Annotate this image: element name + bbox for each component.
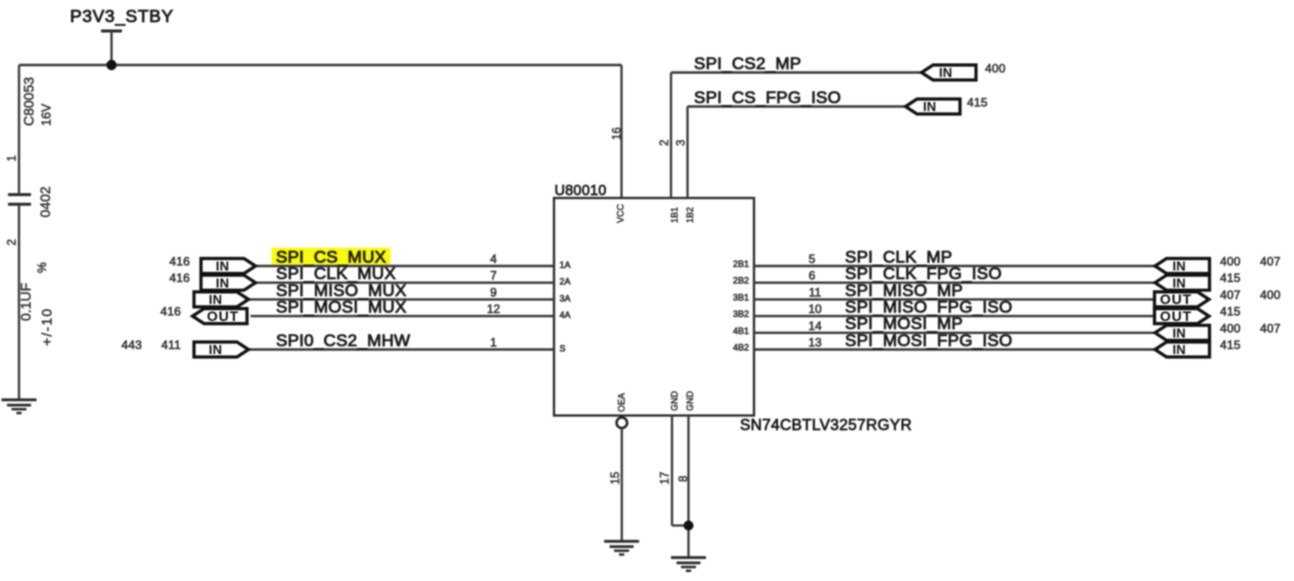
svg-text:8: 8 — [678, 476, 690, 482]
svg-text:443: 443 — [121, 338, 142, 352]
svg-text:C80053: C80053 — [21, 77, 37, 126]
svg-text:3B2: 3B2 — [733, 309, 749, 319]
svg-text:416: 416 — [169, 255, 190, 269]
svg-text:SPI_CS_FPG_ISO: SPI_CS_FPG_ISO — [694, 88, 841, 107]
svg-text:10: 10 — [808, 302, 822, 316]
svg-text:VCC: VCC — [616, 203, 626, 223]
svg-text:IN: IN — [1173, 275, 1186, 290]
svg-text:1: 1 — [7, 155, 19, 161]
svg-text:0402: 0402 — [37, 186, 53, 217]
svg-text:407: 407 — [1220, 288, 1241, 302]
svg-text:4A: 4A — [560, 310, 571, 320]
svg-text:GND: GND — [685, 391, 695, 412]
svg-text:SPI_MOSI_MUX: SPI_MOSI_MUX — [276, 298, 407, 317]
svg-text:OUT: OUT — [1160, 308, 1192, 324]
svg-text:1B2: 1B2 — [685, 207, 695, 223]
svg-text:6: 6 — [809, 269, 816, 283]
svg-text:416: 416 — [169, 271, 190, 285]
svg-text:12: 12 — [487, 302, 501, 316]
svg-text:400: 400 — [1220, 321, 1241, 335]
svg-text:415: 415 — [1220, 305, 1241, 319]
svg-text:411: 411 — [161, 338, 181, 352]
svg-text:IN: IN — [216, 275, 229, 290]
svg-text:17: 17 — [660, 472, 672, 485]
svg-text:OUT: OUT — [1160, 291, 1192, 307]
svg-text:400: 400 — [1220, 255, 1241, 269]
svg-text:IN: IN — [1173, 325, 1186, 340]
svg-text:SN74CBTLV3257RGYR: SN74CBTLV3257RGYR — [740, 417, 912, 434]
svg-text:11: 11 — [809, 285, 822, 299]
svg-text:P3V3_STBY: P3V3_STBY — [70, 6, 174, 27]
svg-text:IN: IN — [923, 99, 936, 114]
svg-text:7: 7 — [490, 269, 497, 283]
svg-text:2A: 2A — [560, 277, 571, 287]
svg-text:4B2: 4B2 — [733, 343, 749, 353]
svg-text:IN: IN — [209, 292, 222, 307]
svg-text:2B1: 2B1 — [733, 259, 749, 269]
svg-text:U80010: U80010 — [555, 183, 607, 199]
svg-text:400: 400 — [985, 62, 1006, 76]
svg-text:9: 9 — [490, 285, 497, 299]
svg-text:407: 407 — [1260, 255, 1281, 269]
svg-text:1: 1 — [490, 336, 497, 350]
svg-text:4B1: 4B1 — [733, 326, 749, 336]
svg-text:5: 5 — [809, 252, 816, 266]
svg-text:2: 2 — [7, 239, 19, 245]
svg-text:OUT: OUT — [207, 308, 239, 324]
svg-text:3A: 3A — [560, 293, 571, 303]
svg-text:S: S — [560, 344, 566, 354]
svg-text:IN: IN — [939, 65, 952, 80]
svg-text:2: 2 — [659, 140, 671, 146]
svg-text:IN: IN — [1173, 259, 1186, 274]
svg-text:IN: IN — [216, 259, 229, 274]
svg-text:415: 415 — [1220, 338, 1241, 352]
svg-text:15: 15 — [610, 472, 622, 485]
svg-text:3B1: 3B1 — [733, 292, 749, 302]
svg-text:407: 407 — [1260, 321, 1281, 335]
svg-text:4: 4 — [490, 252, 497, 266]
svg-text:415: 415 — [1220, 271, 1241, 285]
svg-text:415: 415 — [967, 96, 988, 110]
svg-text:%: % — [35, 262, 49, 273]
svg-text:SPI0_CS2_MHW: SPI0_CS2_MHW — [276, 331, 410, 350]
svg-text:IN: IN — [1173, 342, 1186, 357]
svg-text:OEA: OEA — [617, 393, 627, 412]
svg-text:IN: IN — [209, 342, 222, 357]
svg-text:1A: 1A — [560, 260, 571, 270]
svg-text:2B2: 2B2 — [733, 276, 749, 286]
svg-text:16: 16 — [612, 127, 624, 140]
svg-text:0.1UF: 0.1UF — [18, 283, 34, 321]
svg-text:14: 14 — [808, 319, 822, 333]
svg-text:16V: 16V — [40, 103, 54, 126]
svg-text:+/-10: +/-10 — [39, 308, 55, 346]
svg-text:1B1: 1B1 — [670, 207, 680, 223]
svg-text:13: 13 — [808, 336, 822, 350]
svg-text:GND: GND — [670, 391, 680, 412]
svg-text:SPI_CS2_MP: SPI_CS2_MP — [694, 54, 801, 73]
svg-text:SPI_MOSI_FPG_ISO: SPI_MOSI_FPG_ISO — [845, 331, 1012, 350]
svg-text:3: 3 — [676, 140, 688, 146]
svg-text:400: 400 — [1260, 288, 1281, 302]
svg-text:416: 416 — [160, 305, 181, 319]
